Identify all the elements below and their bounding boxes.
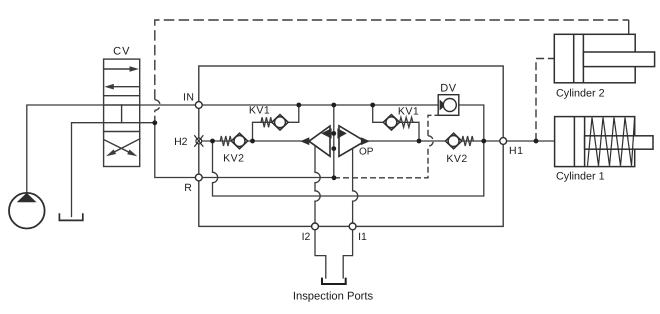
svg-text:Cylinder 1: Cylinder 1 (556, 171, 605, 183)
svg-text:Inspection Ports: Inspection Ports (293, 291, 374, 303)
svg-text:DV: DV (440, 83, 456, 95)
svg-text:H2: H2 (174, 136, 188, 148)
svg-text:R: R (184, 182, 192, 194)
svg-text:IN: IN (183, 92, 195, 104)
svg-text:KV1: KV1 (249, 105, 270, 117)
svg-text:I2: I2 (302, 231, 311, 243)
svg-text:I1: I1 (358, 231, 367, 243)
svg-text:KV2: KV2 (446, 153, 467, 165)
svg-text:H1: H1 (509, 145, 523, 157)
svg-text:OP: OP (359, 147, 374, 158)
svg-text:KV1: KV1 (398, 106, 419, 118)
svg-text:KV2: KV2 (223, 153, 244, 165)
svg-text:CV: CV (113, 46, 130, 58)
svg-text:Cylinder 2: Cylinder 2 (556, 88, 605, 100)
